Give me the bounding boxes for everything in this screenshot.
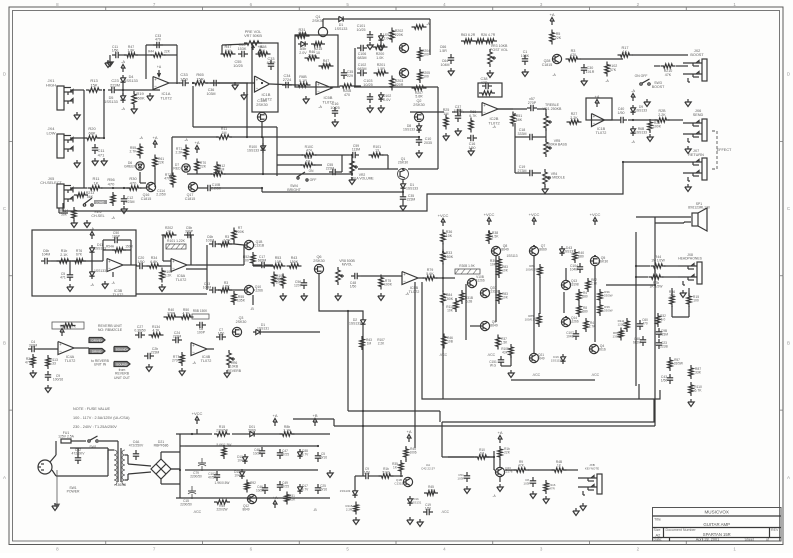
svg-text:NOTE : FUSE VALUE: NOTE : FUSE VALUE (73, 407, 111, 411)
svg-text:200K: 200K (236, 230, 245, 234)
svg-text:2200/50: 2200/50 (180, 503, 192, 507)
svg-text:6.8K: 6.8K (150, 260, 158, 264)
svg-text:-A: -A (552, 73, 556, 77)
svg-text:+VCC: +VCC (590, 212, 601, 217)
svg-text:680: 680 (582, 295, 588, 299)
svg-text:2.0V: 2.0V (383, 98, 391, 102)
svg-text:10/25: 10/25 (363, 83, 373, 87)
svg-text:R5B 150K: R5B 150K (193, 309, 208, 313)
svg-text:R92: R92 (250, 481, 256, 485)
svg-text:SPARTAN 15R: SPARTAN 15R (703, 532, 731, 537)
svg-text:OFF: OFF (310, 178, 317, 182)
svg-text:47K: 47K (610, 68, 617, 72)
svg-text:47/25: 47/25 (281, 453, 289, 457)
svg-text:1K: 1K (94, 180, 99, 185)
svg-text:47K: 47K (665, 73, 672, 77)
svg-text:1SS113: 1SS113 (506, 254, 517, 258)
svg-text:1M: 1M (480, 452, 485, 456)
svg-text:KEYNOTE: KEYNOTE (585, 466, 599, 470)
svg-text:TL072: TL072 (596, 131, 607, 135)
svg-text:2SK30: 2SK30 (598, 260, 608, 264)
svg-text:67K: 67K (76, 253, 83, 257)
svg-text:230 - 240V : T1.25A/250V: 230 - 240V : T1.25A/250V (73, 425, 117, 429)
svg-text:April 28, 2001: April 28, 2001 (696, 538, 719, 542)
svg-text:-A: -A (184, 138, 188, 142)
svg-text:8649: 8649 (490, 324, 498, 328)
svg-text:HIGH: HIGH (46, 82, 56, 87)
svg-text:2.1K: 2.1K (60, 253, 68, 257)
svg-text:220/2W: 220/2W (216, 429, 228, 433)
svg-text:47K: 47K (518, 464, 525, 468)
svg-text:-A: -A (318, 105, 322, 109)
svg-text:22K: 22K (164, 50, 171, 54)
svg-text:1.5K: 1.5K (492, 235, 500, 239)
svg-text:220/2W: 220/2W (217, 508, 228, 512)
svg-text:330P: 330P (185, 230, 194, 234)
svg-text:W.G: W.G (490, 364, 497, 368)
svg-text:+A: +A (152, 135, 157, 140)
svg-text:1SS133: 1SS133 (247, 149, 259, 153)
svg-text:R26 4.7R: R26 4.7R (481, 33, 496, 37)
svg-text:2SK30: 2SK30 (312, 19, 323, 23)
svg-text:10K: 10K (502, 296, 509, 300)
svg-text:5669: 5669 (248, 429, 256, 433)
svg-text:+A: +A (157, 65, 162, 69)
svg-text:113M: 113M (352, 148, 360, 152)
svg-text:150R: 150R (125, 245, 133, 249)
svg-text:1M: 1M (216, 169, 221, 173)
svg-text:C1815: C1815 (141, 197, 152, 201)
svg-text:270R: 270R (167, 312, 176, 316)
svg-text:GREEN: GREEN (124, 165, 137, 169)
svg-text:223B: 223B (660, 345, 667, 349)
svg-text:+A: +A (272, 413, 277, 418)
svg-text:103R: 103R (523, 481, 531, 485)
svg-text:680: 680 (578, 255, 584, 259)
svg-text:223M: 223M (173, 335, 182, 339)
svg-text:1SS133: 1SS133 (635, 109, 647, 113)
svg-text:1K: 1K (623, 50, 628, 54)
svg-text:8669: 8669 (539, 248, 547, 252)
svg-text:0.39/50: 0.39/50 (134, 329, 145, 333)
svg-text:470: 470 (108, 181, 115, 186)
svg-text:47/25: 47/25 (281, 485, 289, 489)
svg-text:0.33/5W: 0.33/5W (671, 362, 683, 366)
svg-text:A1266: A1266 (569, 320, 578, 324)
svg-text:1/50: 1/50 (180, 76, 189, 81)
svg-text:-VCC: -VCC (193, 510, 202, 514)
svg-text:10/25: 10/25 (357, 28, 366, 32)
svg-text:C131B: C131B (394, 481, 403, 485)
svg-text:22K: 22K (504, 451, 511, 455)
svg-text:47K: 47K (25, 361, 32, 365)
svg-text:2SK30: 2SK30 (413, 103, 424, 107)
svg-text:+VCC: +VCC (438, 213, 449, 218)
svg-text:-A: -A (605, 79, 609, 83)
svg-text:104B: 104B (566, 335, 573, 339)
svg-text:TL072: TL072 (409, 290, 420, 294)
svg-text:+VCC: +VCC (529, 212, 540, 217)
svg-text:471: 471 (60, 276, 66, 280)
svg-text:6.2B: 6.2B (466, 300, 473, 304)
svg-text:2200/50: 2200/50 (190, 475, 202, 479)
svg-text:DRIVE-: DRIVE- (92, 350, 102, 354)
svg-text:229: 229 (347, 74, 353, 78)
svg-text:10KB MIDDLE: 10KB MIDDLE (543, 176, 566, 180)
svg-text:2.2K: 2.2K (378, 342, 385, 346)
svg-text:1.0K: 1.0K (376, 56, 384, 60)
svg-text:A1266: A1266 (475, 279, 484, 283)
svg-text:TL072: TL072 (113, 293, 124, 297)
svg-text:LOAD: LOAD (96, 201, 105, 205)
svg-text:270P: 270P (528, 101, 537, 105)
svg-text:103R: 103R (457, 476, 465, 480)
svg-text:RBPF686: RBPF686 (154, 444, 169, 448)
svg-text:223M: 223M (660, 333, 668, 337)
svg-text:1K 1/2W: 1K 1/2W (649, 285, 663, 289)
svg-text:4700: 4700 (164, 177, 172, 181)
svg-text:10/16: 10/16 (319, 488, 327, 492)
svg-text:C131B: C131B (254, 244, 265, 248)
svg-text:-A: -A (426, 22, 430, 26)
svg-text:−: − (59, 349, 62, 354)
svg-text:SEND: SEND (693, 113, 704, 117)
svg-text:Size: Size (654, 528, 661, 532)
svg-text:C1815: C1815 (542, 63, 553, 67)
svg-text:+A: +A (594, 94, 599, 99)
svg-text:1SS131: 1SS131 (257, 327, 269, 331)
svg-text:6.0: 6.0 (661, 318, 666, 322)
svg-text:+A: +A (257, 44, 262, 49)
svg-text:+VCC: +VCC (484, 212, 495, 217)
svg-text:125V 2.5A: 125V 2.5A (58, 435, 75, 439)
svg-text:1SS133: 1SS133 (94, 269, 106, 273)
svg-text:+: + (154, 77, 157, 82)
svg-text:470: 470 (155, 38, 161, 42)
svg-text:-B: -B (250, 307, 254, 311)
svg-text:−: − (256, 85, 259, 90)
svg-text:223M: 223M (151, 351, 160, 355)
svg-text:2SK30: 2SK30 (313, 259, 324, 263)
svg-text:682M: 682M (633, 341, 641, 345)
svg-text:104: 104 (234, 474, 240, 478)
svg-text:683M: 683M (258, 259, 267, 263)
svg-text:LOW: LOW (46, 130, 55, 135)
svg-text:Document Number: Document Number (666, 528, 697, 532)
svg-text:POWER: POWER (67, 490, 80, 494)
svg-text:47R: 47R (549, 486, 555, 490)
svg-text:22K: 22K (158, 161, 165, 165)
svg-text:TL072: TL072 (160, 95, 172, 100)
svg-text:+A: +A (406, 429, 411, 434)
svg-text:CH-SEL: CH-SEL (91, 214, 104, 218)
svg-text:UNIT OUT: UNIT OUT (114, 376, 130, 380)
svg-text:-VCC: -VCC (532, 373, 541, 377)
svg-text:223M: 223M (407, 198, 416, 202)
svg-text:A1266: A1266 (253, 289, 263, 293)
svg-text:of: of (766, 538, 769, 542)
svg-text:−: − (192, 350, 195, 355)
svg-text:-A: -A (631, 140, 635, 144)
svg-text:1/50: 1/50 (350, 285, 357, 289)
svg-text:683M: 683M (358, 67, 367, 71)
svg-text:1SS133: 1SS133 (406, 187, 418, 191)
svg-text:100: 100 (423, 53, 429, 57)
svg-text:104M: 104M (570, 268, 579, 272)
svg-text:10/25: 10/25 (256, 489, 264, 493)
svg-text:−: − (317, 89, 320, 94)
svg-text:-A: -A (111, 216, 115, 220)
svg-text:+A: +A (549, 12, 554, 17)
svg-text:333M: 333M (29, 344, 38, 348)
svg-text:1006: 1006 (409, 451, 416, 455)
svg-text:-A: -A (192, 361, 196, 365)
svg-text:104M: 104M (441, 63, 450, 67)
svg-text:−: − (593, 121, 596, 126)
svg-text:1M: 1M (276, 281, 281, 285)
svg-text:-A: -A (139, 136, 143, 140)
svg-text:A: A (3, 475, 6, 480)
svg-text:500KA BASS: 500KA BASS (547, 143, 568, 147)
svg-text:68K: 68K (516, 118, 523, 122)
svg-text:104M: 104M (42, 253, 51, 257)
svg-text:223M: 223M (110, 82, 120, 87)
svg-text:100: 100 (423, 75, 429, 79)
svg-text:33: 33 (52, 362, 56, 366)
svg-text:−: − (108, 266, 111, 271)
svg-text:10B: 10B (447, 340, 453, 344)
svg-text:1SS133: 1SS133 (349, 322, 361, 326)
svg-text:1SS133: 1SS133 (124, 79, 138, 83)
svg-text:POST VOL: POST VOL (490, 48, 508, 52)
svg-text:BRIGHT: BRIGHT (287, 188, 301, 192)
svg-text:56K: 56K (61, 213, 68, 217)
svg-text:820R: 820R (395, 83, 404, 87)
svg-text:223M: 223M (326, 167, 335, 171)
svg-text:472/250V: 472/250V (129, 444, 144, 448)
svg-text:BOOST: BOOST (652, 85, 665, 89)
svg-text:+: + (593, 114, 596, 119)
svg-text:R101 1.22K: R101 1.22K (167, 239, 186, 243)
svg-text:683M: 683M (358, 56, 367, 60)
svg-text:150K: 150K (290, 260, 299, 264)
svg-text:HEADPHONES: HEADPHONES (678, 257, 702, 261)
svg-text:130B: 130B (612, 334, 619, 338)
svg-text:270R: 270R (172, 359, 181, 363)
svg-text:−: − (172, 266, 175, 271)
svg-text:10/25: 10/25 (233, 64, 243, 68)
svg-text:470: 470 (344, 93, 350, 97)
svg-text:5.6K: 5.6K (426, 272, 434, 276)
svg-text:100/0.5W: 100/0.5W (526, 267, 539, 271)
svg-text:43K: 43K (502, 351, 509, 355)
svg-text:1/50: 1/50 (218, 332, 225, 336)
svg-text:22K: 22K (555, 36, 562, 40)
svg-text:UNIT IN: UNIT IN (94, 363, 107, 367)
svg-text:-A: -A (631, 88, 635, 93)
svg-text:1.5R: 1.5R (223, 239, 231, 243)
svg-text:135K: 135K (237, 299, 246, 303)
svg-text:10/25: 10/25 (253, 452, 261, 456)
svg-text:8.2K: 8.2K (165, 274, 173, 278)
svg-text:100K: 100K (653, 125, 662, 129)
svg-text:2.2K: 2.2K (176, 151, 184, 155)
svg-text:8649: 8649 (242, 508, 249, 512)
svg-text:103M: 103M (203, 286, 212, 290)
svg-text:10: 10 (167, 230, 171, 234)
svg-text:+: + (59, 342, 62, 347)
svg-text:100P: 100P (197, 331, 206, 335)
svg-text:2035: 2035 (424, 141, 432, 145)
svg-text:C42 22.5?: C42 22.5? (421, 466, 435, 470)
svg-text:120B: 120B (617, 322, 624, 326)
svg-text:-A: -A (90, 283, 94, 287)
svg-text:150K: 150K (445, 297, 454, 301)
svg-text:1SS133: 1SS133 (403, 128, 415, 132)
svg-text:-A: -A (121, 59, 125, 64)
svg-text:R30B 1.9K: R30B 1.9K (459, 264, 475, 268)
svg-text:B: B (3, 340, 6, 345)
svg-text:0.33/5W: 0.33/5W (601, 293, 612, 297)
svg-text:4.7V: 4.7V (302, 488, 309, 492)
svg-text:470: 470 (130, 180, 137, 185)
svg-text:104: 104 (237, 459, 243, 463)
svg-text:C3198: C3198 (569, 283, 579, 287)
svg-text:-A: -A (90, 226, 94, 231)
svg-text:120P: 120P (294, 284, 303, 288)
svg-text:RED: RED (173, 167, 181, 171)
svg-text:1.9K/0.5W: 1.9K/0.5W (215, 481, 230, 485)
svg-text:101R: 101R (586, 70, 595, 74)
svg-text:56K: 56K (87, 195, 94, 199)
svg-text:680: 680 (582, 310, 588, 314)
svg-text:2SK30: 2SK30 (256, 103, 267, 107)
svg-text:R44: R44 (148, 50, 154, 54)
svg-text:−: − (403, 279, 406, 284)
svg-text:1/50: 1/50 (138, 260, 145, 264)
svg-text:474: 474 (306, 149, 312, 153)
svg-text:MUSICVOX: MUSICVOX (704, 510, 729, 515)
svg-text:0.33/5W: 0.33/5W (601, 308, 612, 312)
svg-text:+B: +B (312, 413, 317, 418)
svg-text:2.1R: 2.1R (283, 429, 291, 433)
svg-text:10/16: 10/16 (319, 456, 327, 460)
svg-text:1SS133: 1SS133 (104, 100, 118, 104)
svg-text:100K: 100K (384, 283, 393, 287)
svg-text:8616: 8616 (598, 348, 606, 352)
svg-text:Sheet: Sheet (745, 538, 754, 542)
svg-text:-VCC: -VCC (441, 510, 449, 514)
svg-text:A: A (787, 475, 790, 480)
svg-text:1M: 1M (306, 160, 311, 164)
svg-text:10: 10 (316, 51, 320, 55)
svg-text:470: 470 (570, 53, 576, 57)
svg-text:1.5R: 1.5R (439, 49, 447, 53)
svg-text:1.5K: 1.5K (501, 341, 508, 345)
svg-text:+A: +A (194, 140, 199, 145)
svg-text:10K: 10K (446, 234, 453, 238)
svg-text:1SS133: 1SS133 (635, 131, 647, 135)
svg-text:2SK30: 2SK30 (398, 161, 408, 165)
svg-text:47/50: 47/50 (208, 476, 216, 480)
svg-text:EFFECT: EFFECT (717, 148, 732, 152)
svg-text:4.7E: 4.7E (428, 489, 435, 493)
svg-text:+: + (172, 259, 175, 264)
svg-text:TL072: TL072 (201, 359, 212, 363)
svg-text:BOOST: BOOST (690, 53, 704, 57)
svg-text:6.7K: 6.7K (469, 114, 477, 118)
svg-text:2.2K: 2.2K (570, 116, 578, 120)
svg-text:1SS133: 1SS133 (563, 250, 575, 254)
svg-text:470: 470 (642, 322, 648, 326)
svg-text:+A: +A (497, 430, 502, 435)
svg-text:GUITAR AMP: GUITAR AMP (703, 522, 730, 527)
svg-text:223M: 223M (126, 200, 135, 204)
svg-text:100P: 100P (112, 235, 121, 239)
svg-text:R63 6.2R: R63 6.2R (461, 33, 476, 37)
svg-text:33K: 33K (695, 371, 702, 375)
svg-text:4.7V: 4.7V (302, 453, 309, 457)
svg-text:273M: 273M (518, 169, 527, 173)
svg-text:SOUND-: SOUND- (116, 363, 128, 367)
svg-text:1.5R: 1.5R (222, 285, 230, 289)
svg-text:ON: ON (309, 169, 314, 173)
svg-text:Date:: Date: (654, 538, 663, 542)
svg-text:-A: -A (121, 107, 125, 111)
svg-text:2.2/50: 2.2/50 (156, 193, 166, 197)
svg-text:REV: REV (771, 528, 779, 532)
svg-text:4.7K: 4.7K (183, 312, 191, 316)
svg-text:10K: 10K (447, 309, 454, 313)
svg-text:2.2K: 2.2K (658, 113, 666, 117)
svg-text:333M: 333M (518, 132, 527, 136)
svg-text:2.0V: 2.0V (299, 51, 307, 55)
svg-text:471: 471 (98, 152, 105, 157)
svg-text:101M: 101M (206, 239, 215, 243)
svg-text:220K: 220K (395, 33, 404, 37)
svg-text:186:05: 186:05 (116, 483, 126, 487)
svg-text:5100: 5100 (382, 471, 389, 475)
svg-text:2724: 2724 (283, 78, 291, 82)
svg-text:-A: -A (492, 125, 496, 129)
svg-text:B: B (787, 340, 790, 345)
svg-text:+A: +A (59, 323, 64, 328)
svg-text:6.7K: 6.7K (695, 389, 703, 393)
svg-text:-VCC: -VCC (487, 353, 496, 357)
svg-text:1/50: 1/50 (469, 146, 476, 150)
svg-text:22K: 22K (200, 165, 207, 169)
svg-text:1SS133: 1SS133 (335, 27, 348, 31)
svg-text:+: + (256, 77, 259, 82)
svg-text:1/50: 1/50 (661, 379, 668, 383)
svg-text:1/50: 1/50 (618, 111, 625, 115)
svg-text:2.2/50: 2.2/50 (211, 187, 221, 191)
svg-text:ON OFF: ON OFF (635, 74, 648, 78)
svg-text:100: 100 (693, 299, 699, 303)
svg-text:10K: 10K (502, 269, 509, 273)
svg-text:1SS115: 1SS115 (551, 358, 562, 362)
svg-text:+VCC: +VCC (192, 411, 203, 416)
svg-text:1/50: 1/50 (112, 49, 119, 53)
svg-text:1SS133: 1SS133 (340, 489, 351, 493)
svg-text:1M 1/2W: 1M 1/2W (651, 259, 665, 263)
svg-text:2.7K: 2.7K (130, 150, 138, 154)
svg-text:VR7 50KB: VR7 50KB (244, 34, 262, 38)
svg-text:100/0.5W: 100/0.5W (525, 317, 538, 321)
svg-text:C1815: C1815 (185, 197, 196, 201)
svg-text:8649: 8649 (501, 248, 509, 252)
svg-text:-A: -A (405, 292, 409, 296)
